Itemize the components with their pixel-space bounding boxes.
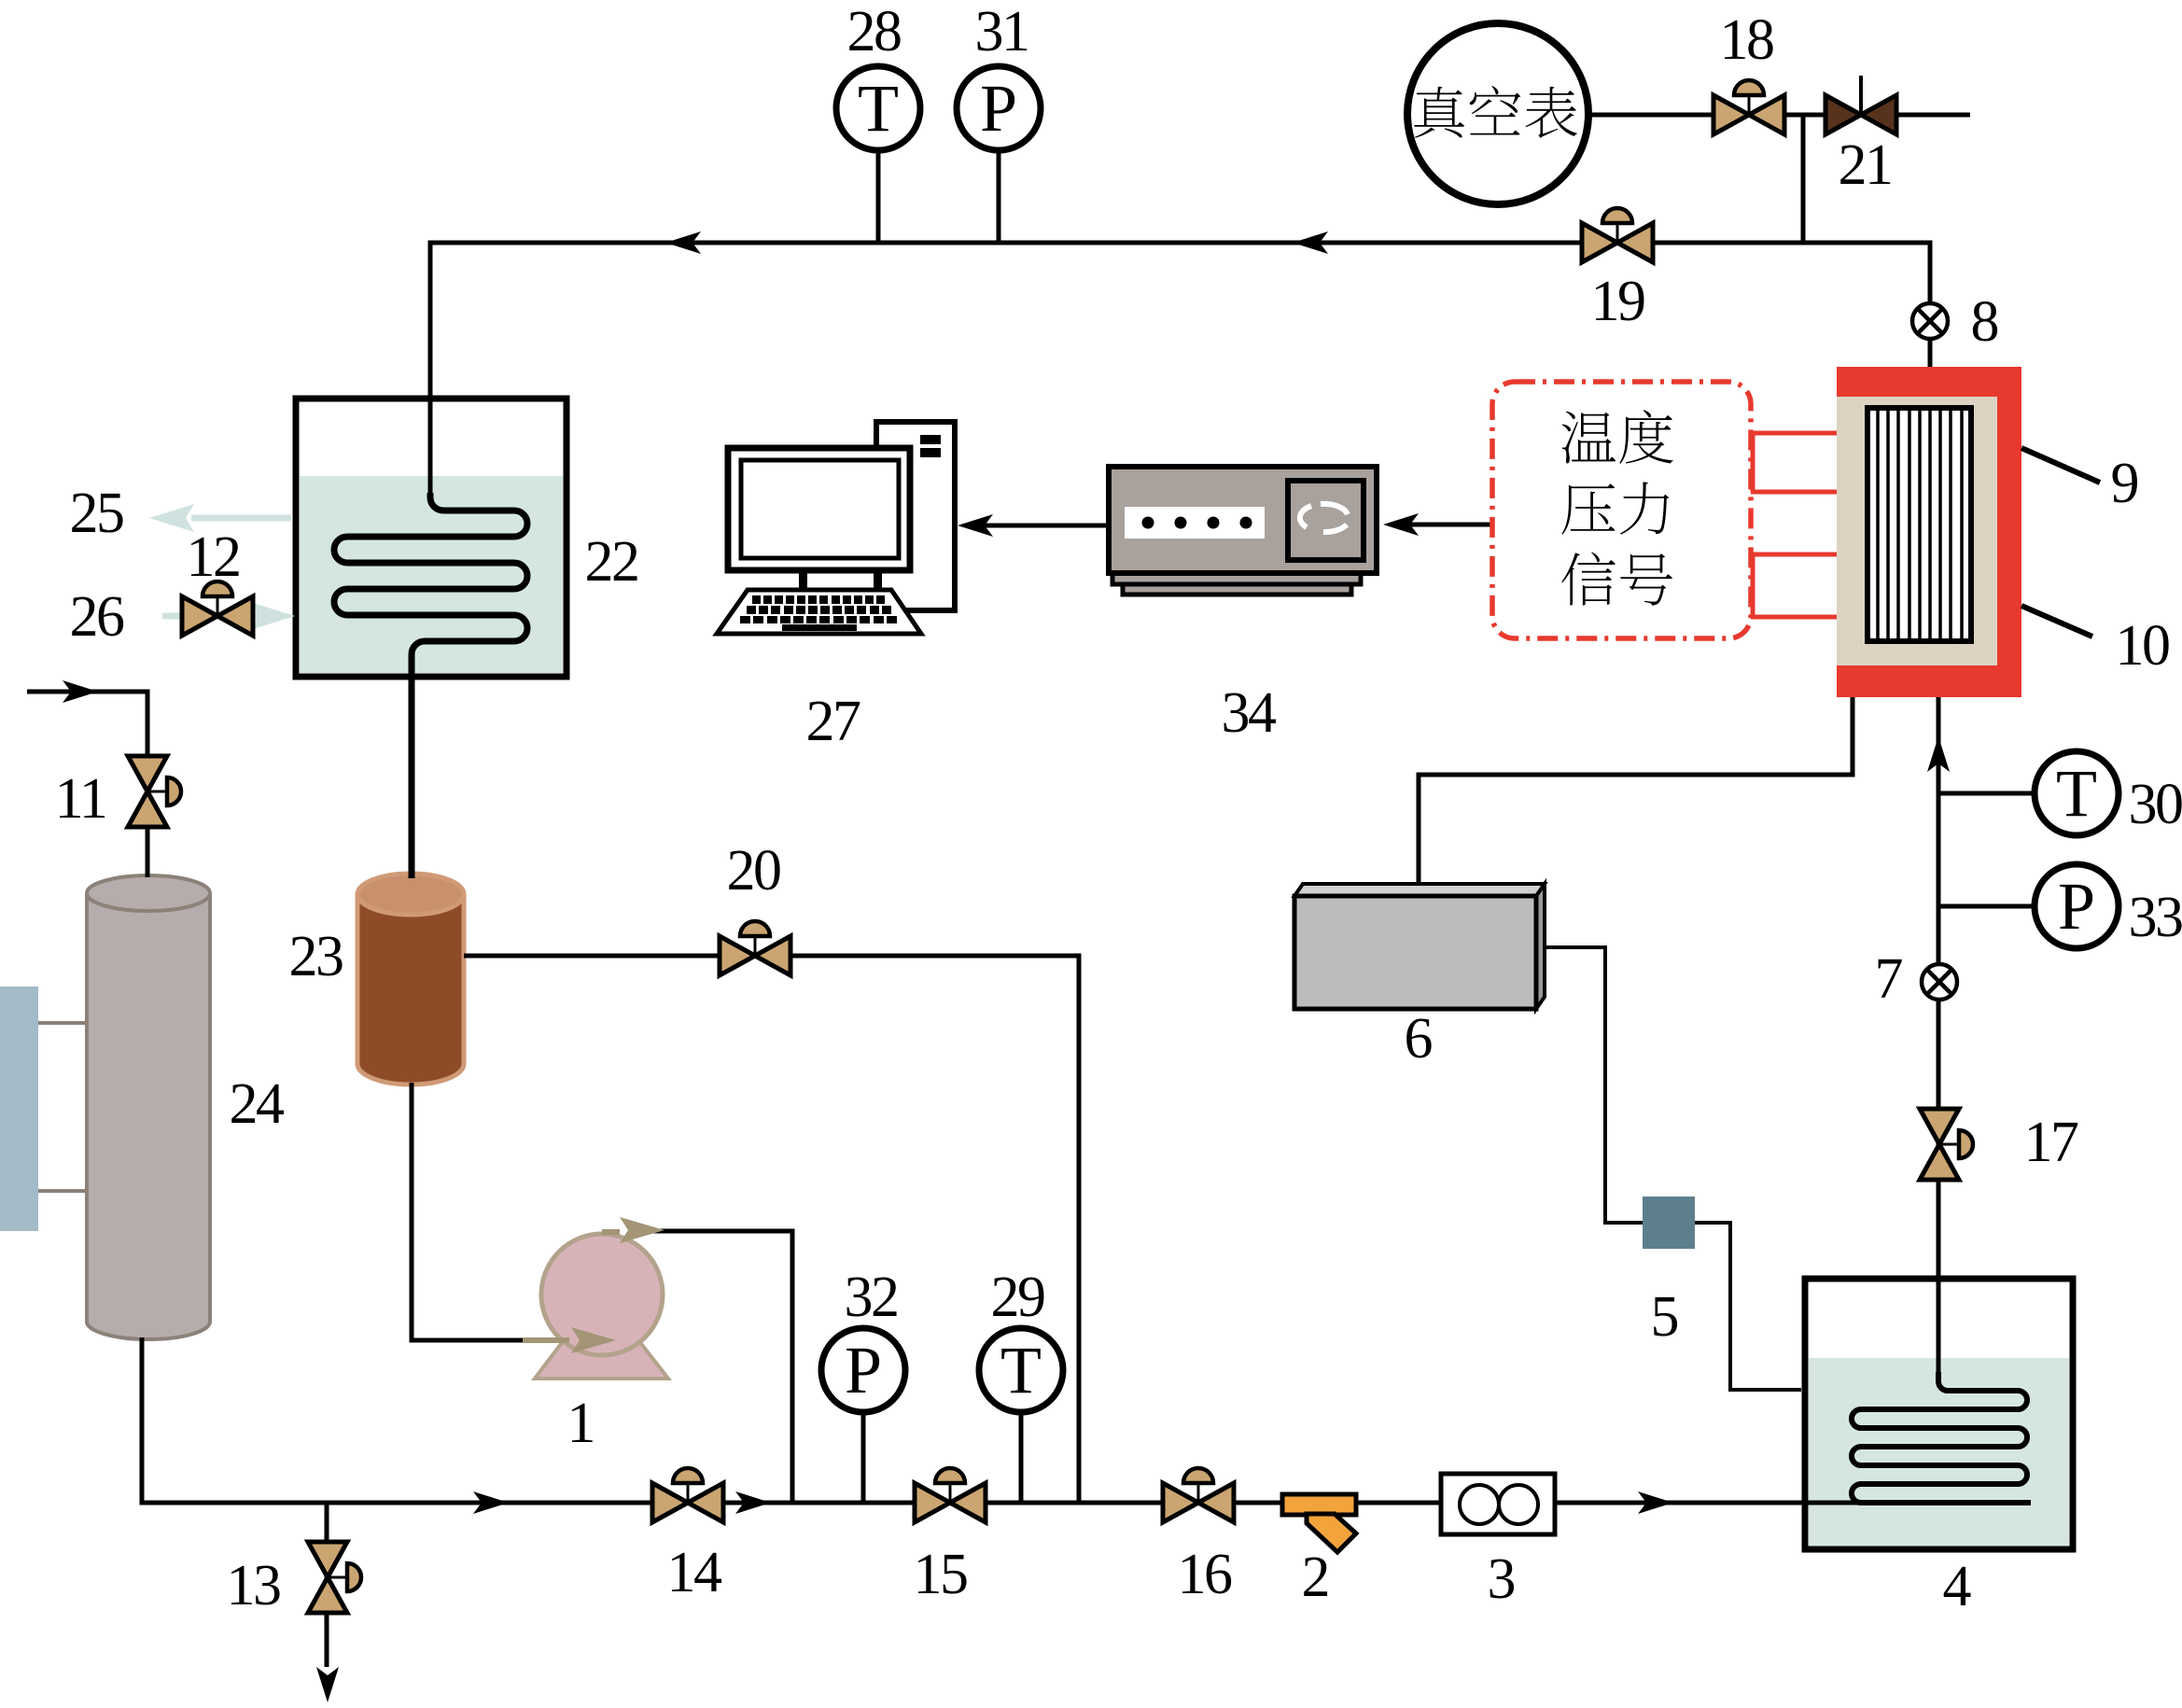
wire signal box to 34 [1391,523,1492,527]
signal arrow to 34 [1383,513,1419,536]
svg-text:8: 8 [1971,290,2000,354]
tank 4 water bath [1805,1279,2073,1549]
valve 18 [1713,80,1784,134]
pump 1 [535,1234,668,1379]
flow arrow inlet-11 [63,680,98,703]
svg-text:10: 10 [2116,614,2170,678]
flow arrow bottom-left [473,1491,509,1514]
svg-text:20: 20 [727,839,781,903]
leader line 10 [2021,606,2092,637]
flow arrow top-mid [1293,231,1328,254]
svg-text:18: 18 [1720,8,1774,72]
computer keyboard [717,590,921,634]
svg-text:2: 2 [1302,1546,1331,1609]
filter-drier 23 [357,874,464,1085]
computer monitor [728,448,910,570]
svg-text:25: 25 [70,482,124,545]
pipe gauge33 link [1938,904,2035,909]
svg-text:7: 7 [1875,947,1904,1011]
pipe inlet through valve 11 [27,692,147,877]
svg-text:34: 34 [1222,681,1278,745]
svg-text:15: 15 [914,1543,968,1606]
pipe vacuum gauge line [1589,113,1970,118]
svg-text:T: T [2056,756,2097,831]
pump outlet arrow [602,1217,664,1243]
flow arrow riser up [1927,736,1950,772]
valve 14 [652,1468,723,1522]
valve 12 [182,581,253,636]
signal bus upper [1751,433,1755,492]
flowmeter 3 [1441,1474,1555,1534]
flow arrow top-left [665,231,701,254]
valve 17 [1920,1109,1973,1180]
svg-text:P: P [845,1333,882,1407]
svg-text:14: 14 [667,1541,723,1604]
coolant in line 26 [162,613,261,620]
wire heater to controller 6 [1419,697,1853,888]
valve 19 [1582,208,1653,262]
monitor stand [799,570,882,590]
text wen-du [1561,410,1672,464]
tank 24 gas cylinder [87,875,210,1339]
pipe gauge31 stem [997,149,1001,243]
valve 11 [128,756,181,827]
pipe gauge29 stem [1019,1414,1024,1503]
pipe tank24 to bottom line [142,1337,1857,1503]
svg-text:P: P [2058,869,2095,944]
signal lead 1 [1751,431,1837,436]
test section 10 [1867,408,1971,641]
filter 2 [1282,1494,1356,1552]
controller 6 [1294,884,1545,1009]
sight glass 8 [1912,303,1948,339]
signal lead 2 [1751,490,1837,495]
svg-text:T: T [858,71,899,146]
pump inlet arrow [523,1327,616,1353]
sight glass 7 [1922,964,1957,1000]
valve 15 [915,1468,986,1522]
svg-text:30: 30 [2129,773,2182,836]
pipe valve13 drain [325,1503,329,1667]
gauge T 29 [979,1328,1063,1412]
svg-text:3: 3 [1488,1547,1517,1611]
coolant out arrow 25 [149,504,194,532]
svg-text:23: 23 [289,925,343,988]
pipe 23 to pump inlet [412,1083,546,1340]
coolant out line 25 [191,515,291,522]
svg-text:1: 1 [567,1392,596,1455]
svg-text:21: 21 [1839,133,1892,197]
svg-text:13: 13 [227,1554,281,1617]
pipe valve 20 branch [464,956,1079,1503]
svg-text:26: 26 [70,585,125,649]
bracket link upper [38,1021,89,1025]
wire 34 to computer [966,524,1109,528]
heater insulation [1837,397,1997,665]
svg-text:11: 11 [55,767,106,831]
pipe heater riser [1937,697,1941,1381]
gauge P 32 [821,1328,905,1412]
pipe gauge32 stem [861,1414,866,1503]
signal bus lower [1751,554,1755,617]
svg-text:33: 33 [2129,886,2182,949]
pipe junction drop 21-19 [1801,115,1806,243]
svg-text:32: 32 [845,1266,898,1329]
svg-text:9: 9 [2111,452,2140,515]
svg-text:6: 6 [1405,1007,1434,1071]
pipe tank4 coil [1852,1372,2031,1503]
text zhen-kong-biao [1414,86,1577,138]
signal arrow to computer [958,514,993,537]
wall bracket of tank 24 [0,987,38,1231]
svg-text:28: 28 [847,0,902,63]
svg-text:5: 5 [1651,1285,1680,1349]
svg-text:17: 17 [2024,1111,2079,1174]
svg-text:12: 12 [187,525,240,589]
svg-text:27: 27 [806,690,861,753]
computer tower [876,422,955,610]
gauge T 30 [2035,751,2119,835]
signal box dash border [1492,382,1751,638]
svg-text:19: 19 [1591,270,1645,333]
data logger 34 [1109,467,1377,595]
sensor 5 [1643,1197,1695,1249]
gauge P 33 [2035,864,2119,948]
tank 22 condenser water bath [296,399,566,677]
coolant in arrow 26 [250,602,295,630]
svg-text:31: 31 [975,0,1028,63]
wire 6 to 5 [1536,947,1646,1223]
gauge P 31 [957,66,1041,150]
heater shell 9 [1837,367,2021,697]
valve 20 [720,921,790,975]
pipe tank22 coil & outlet to 23 [334,493,527,878]
text xin-hao [1561,553,1672,606]
signal lead 3 [1751,553,1837,557]
svg-text:29: 29 [991,1266,1045,1329]
pipe gauge28 stem [876,149,881,243]
flow arrow drain 13 [316,1667,339,1702]
vacuum gauge dial [1407,23,1588,204]
svg-text:22: 22 [585,530,638,594]
text ya-li [1561,482,1669,534]
svg-text:P: P [980,71,1017,146]
svg-text:24: 24 [230,1072,286,1136]
pipe gauge30 link [1938,791,2035,796]
valve 16 [1163,1468,1234,1522]
svg-text:16: 16 [1178,1543,1233,1606]
flow arrow before junction [735,1491,771,1514]
svg-text:4: 4 [1943,1555,1972,1618]
valve 13 [308,1542,361,1613]
pipe top return line [430,243,1930,499]
valve 21 [1825,76,1896,134]
flow arrow after flowmeter [1638,1491,1673,1514]
bracket link lower [38,1189,89,1193]
pipe pump outlet [653,1231,792,1503]
signal lead 4 [1751,615,1837,620]
svg-text:T: T [1000,1333,1042,1407]
leader line 9 [2021,448,2100,483]
gauge T 28 [836,66,920,150]
wire 5 to tank4 [1691,1223,1801,1390]
